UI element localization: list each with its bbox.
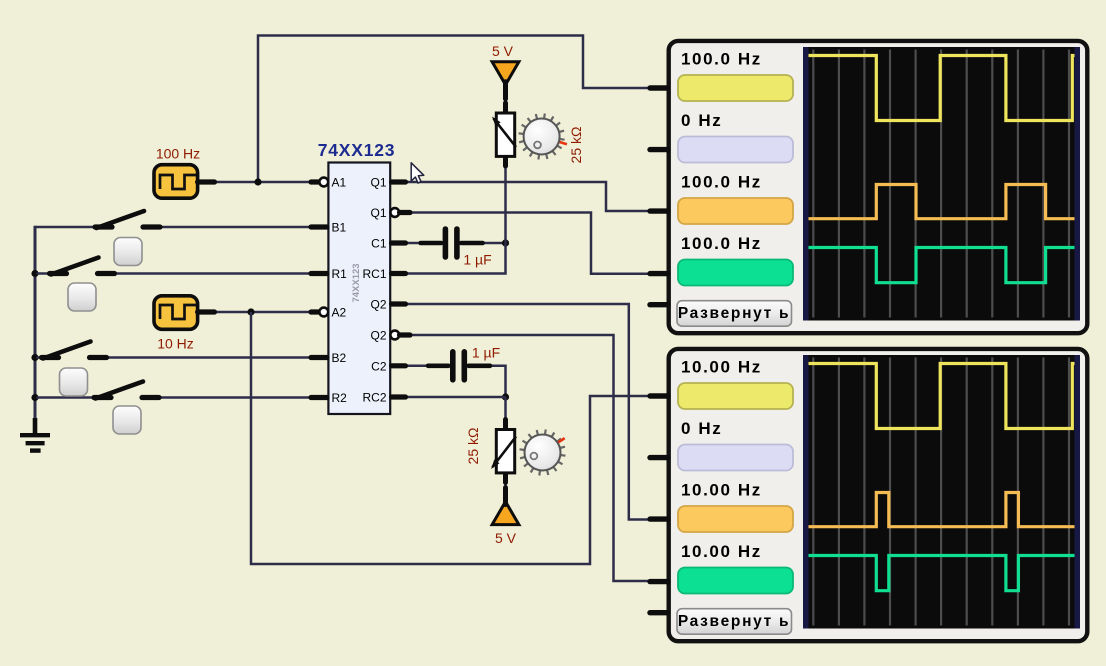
svg-text:74XX123: 74XX123	[318, 140, 396, 160]
wire 10Hz source to A2 pin	[214, 311, 320, 314]
channel 2 readout 0 Hz	[678, 111, 793, 163]
wire 5V supply to potentiometer R1	[504, 96, 507, 116]
wire C2 pin to capacitor C2	[405, 365, 427, 368]
channel 1 terminal stub	[650, 85, 668, 90]
wire ground rail (vertical)	[34, 226, 37, 420]
wire C1 pin to capacitor C1	[405, 242, 421, 245]
potentiometer R2 25 kΩ	[465, 420, 516, 483]
wire potentiometer R1 to RC node	[504, 166, 507, 243]
svg-text:B2: B2	[332, 351, 347, 365]
svg-text:100.0 Hz: 100.0 Hz	[681, 234, 762, 253]
svg-text:C2: C2	[371, 359, 387, 373]
wire capacitor C1 to RC node	[480, 242, 506, 245]
button for S4 (grey pushbutton)	[113, 406, 141, 434]
channel 4 terminal stub	[650, 579, 668, 584]
pin Q2-bar	[370, 329, 410, 343]
pin R2	[311, 391, 347, 405]
pin Q1-bar	[370, 206, 410, 220]
wire 100Hz source to A1 pin	[214, 181, 320, 184]
svg-text:5 V: 5 V	[492, 43, 514, 59]
oscilloscope screen	[803, 47, 1080, 321]
pin RC2	[362, 391, 405, 405]
wire pot node 2 to potentiometer R2	[504, 397, 507, 424]
instrument panel (frequency counter / scope), top y=346.7	[669, 349, 1088, 641]
extra terminal stub	[650, 302, 668, 307]
channel 3 readout 10.00 Hz	[678, 481, 793, 533]
extra terminal stub	[650, 610, 668, 615]
node junction C2/RC2/pot2	[502, 393, 509, 400]
svg-text:B1: B1	[332, 221, 347, 235]
svg-text:25 kΩ: 25 kΩ	[568, 127, 584, 164]
node junction rail/S3	[31, 354, 38, 361]
wire switch S1 to B1 pin	[159, 226, 314, 229]
waveform channel 1 (yellow)	[809, 364, 1075, 429]
wire switch S2 to R1 pin	[112, 272, 314, 275]
VCC2 5 V supply	[492, 488, 519, 546]
pin C2	[371, 359, 405, 373]
svg-text:C1: C1	[371, 237, 387, 251]
svg-text:0 Hz: 0 Hz	[681, 111, 722, 130]
wire rail corner to switch S1	[35, 226, 96, 229]
channel 4 terminal stub	[650, 271, 668, 276]
VCC1 5 V supply	[492, 43, 519, 99]
wire RC2 pin to pot node 2	[405, 396, 506, 399]
svg-text:Развернут ь: Развернут ь	[678, 613, 790, 630]
svg-text:Q1: Q1	[370, 206, 386, 220]
channel 2 terminal stub	[650, 455, 668, 460]
wire switch S3 to B2 pin	[105, 356, 314, 359]
expand button	[677, 301, 792, 327]
waveform channel 4 (green)	[809, 248, 1075, 283]
wire RC1 pin to pot node	[405, 243, 506, 274]
svg-text:10.00 Hz: 10.00 Hz	[681, 481, 762, 500]
wire potentiometer R2 to 5V supply 2	[504, 474, 507, 492]
pin R1	[311, 267, 347, 281]
channel 2 readout 0 Hz	[678, 419, 793, 471]
node junction rail/S4	[31, 394, 38, 401]
waveform channel 3 (orange)	[809, 185, 1075, 219]
switch S3 (B2) (open SPST switch)	[42, 342, 107, 359]
channel 1 readout 10.00 Hz	[678, 358, 793, 410]
svg-text:10.00 Hz: 10.00 Hz	[681, 358, 762, 377]
svg-text:Q1: Q1	[370, 176, 386, 190]
control knob for R1	[519, 114, 567, 160]
node junction rail/S2	[31, 270, 38, 277]
control knob for R2	[520, 430, 566, 476]
waveform channel 4 (green)	[809, 556, 1075, 591]
svg-text:100.0 Hz: 100.0 Hz	[681, 173, 762, 192]
svg-text:RC1: RC1	[362, 267, 386, 281]
switch S4 (R2) (open SPST switch)	[94, 382, 159, 399]
svg-text:A2: A2	[332, 306, 347, 320]
svg-text:Q2: Q2	[370, 298, 386, 312]
wire net A2 to instrument-2 ch1 (bottom route)	[251, 312, 652, 564]
channel 4 readout 10.00 Hz	[678, 542, 793, 594]
button for S1 (grey pushbutton)	[114, 238, 142, 266]
pin B1	[311, 221, 347, 235]
node junction A2/source/drop	[247, 308, 254, 315]
channel 3 terminal stub	[650, 516, 668, 521]
oscilloscope screen	[803, 355, 1080, 629]
wire net A1 to instrument-1 ch1 (top route)	[258, 36, 652, 183]
op IC U1 74XX123 dual monostable	[318, 140, 396, 414]
channel 4 readout 100.0 Hz	[678, 234, 793, 286]
button for S3 (grey pushbutton)	[60, 368, 88, 396]
channel 1 readout 100.0 Hz	[678, 50, 793, 102]
wire Q1-bar to instrument-1 ch4	[410, 213, 652, 274]
svg-text:25 kΩ: 25 kΩ	[465, 428, 481, 465]
channel 2 terminal stub	[650, 147, 668, 152]
V1 square-wave source 100 Hz	[154, 146, 215, 199]
svg-text:0 Hz: 0 Hz	[681, 419, 722, 438]
pin C1	[371, 237, 405, 251]
waveform channel 1 (yellow)	[809, 56, 1075, 121]
svg-text:74XX123: 74XX123	[351, 263, 362, 302]
pin A1	[311, 176, 347, 190]
expand button	[677, 609, 792, 635]
wire rail to switch S2	[37, 272, 51, 275]
channel 1 terminal stub	[650, 393, 668, 398]
wire Q2-bar to instrument-2 ch4	[410, 335, 652, 581]
svg-text:5 V: 5 V	[495, 530, 517, 546]
channel 3 terminal stub	[650, 208, 668, 213]
pin Q2	[370, 298, 405, 312]
svg-text:R2: R2	[332, 391, 348, 405]
pin A2	[311, 306, 347, 320]
svg-text:Развернут ь: Развернут ь	[678, 305, 790, 322]
waveform channel 3 (orange)	[809, 493, 1075, 527]
wire rail to switch S4	[37, 396, 96, 399]
node junction C1/RC1/pot	[502, 239, 509, 246]
ground symbol	[20, 418, 50, 451]
mouse cursor	[411, 163, 424, 183]
svg-text:10.00 Hz: 10.00 Hz	[681, 542, 762, 561]
capacitor C2 1 µF	[428, 345, 500, 380]
wire switch S4 to R2 pin	[158, 396, 314, 399]
svg-text:R1: R1	[332, 267, 348, 281]
wire Q2 to instrument-2 ch3	[405, 304, 652, 520]
button for S2 (grey pushbutton)	[68, 283, 96, 311]
svg-text:100 Hz: 100 Hz	[156, 146, 200, 162]
potentiometer R1 25 kΩ	[492, 103, 584, 166]
svg-text:Q2: Q2	[370, 329, 386, 343]
svg-text:A1: A1	[332, 176, 347, 190]
wire Q1 to instrument-1 ch3	[405, 182, 652, 211]
svg-text:100.0 Hz: 100.0 Hz	[681, 50, 762, 69]
wire capacitor C2 to RC node 2	[488, 366, 506, 397]
wire rail to switch S3	[37, 356, 44, 359]
pin RC1	[362, 267, 405, 281]
instrument panel (frequency counter / scope), top y=38.7	[669, 41, 1088, 333]
switch S1 (B1) (open SPST switch)	[95, 211, 160, 228]
pin Q1	[370, 176, 405, 190]
svg-text:1 µF: 1 µF	[463, 252, 491, 268]
channel 3 readout 100.0 Hz	[678, 173, 793, 225]
svg-text:1 µF: 1 µF	[472, 345, 500, 361]
switch S2 (R1) (open SPST switch)	[50, 258, 115, 275]
V2 square-wave source 10 Hz	[154, 296, 215, 352]
svg-text:RC2: RC2	[362, 391, 386, 405]
svg-text:10 Hz: 10 Hz	[157, 335, 194, 351]
node junction A1/source/top-route	[254, 178, 261, 185]
pin B2	[311, 351, 347, 365]
capacitor C1 1 µF	[421, 229, 492, 268]
